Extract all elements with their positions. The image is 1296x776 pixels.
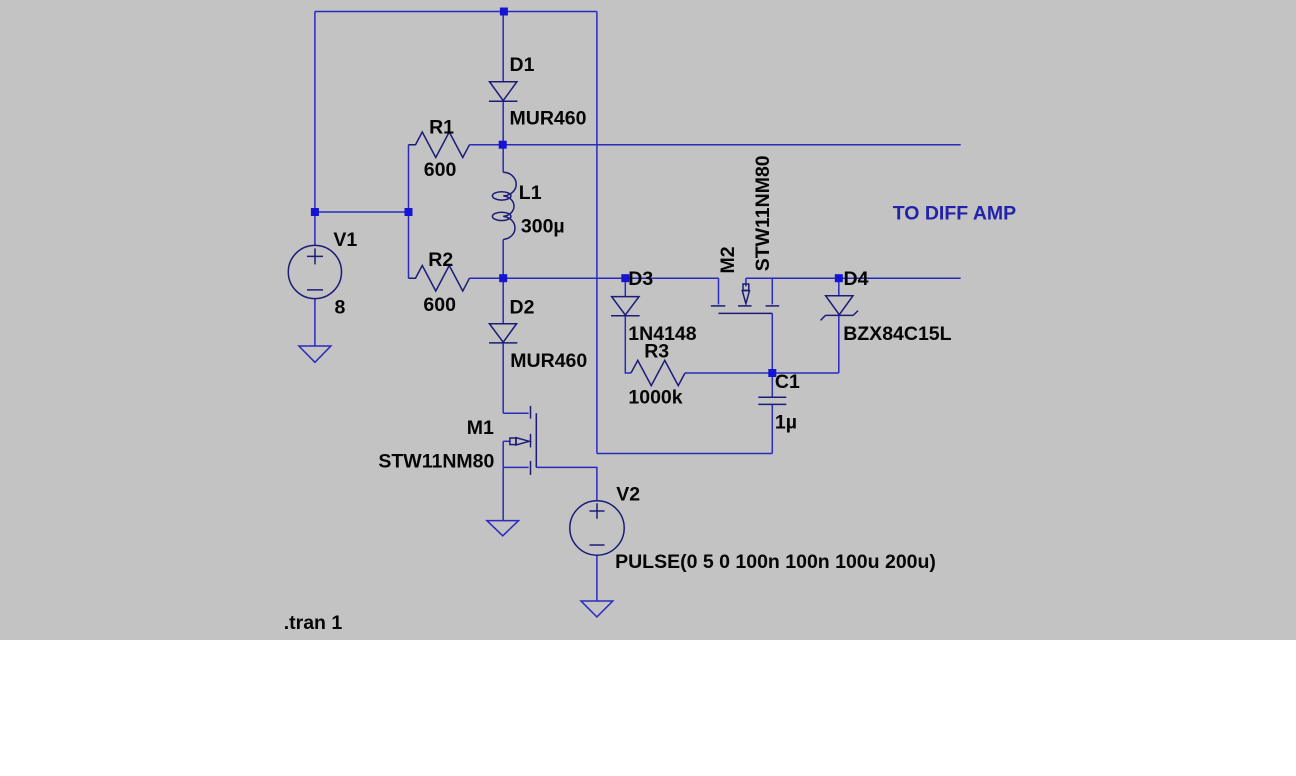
svg-text:MUR460: MUR460 — [510, 350, 587, 372]
svg-text:D1: D1 — [510, 54, 535, 76]
svg-text:1000k: 1000k — [628, 387, 682, 409]
svg-text:STW11NM80: STW11NM80 — [378, 451, 494, 473]
svg-text:R2: R2 — [428, 249, 453, 271]
svg-text:V2: V2 — [616, 484, 640, 506]
svg-text:C1: C1 — [775, 371, 800, 393]
svg-text:PULSE(0 5 0 100n 100n 100u 200: PULSE(0 5 0 100n 100n 100u 200u) — [615, 551, 936, 573]
svg-text:R3: R3 — [644, 340, 669, 362]
svg-text:300µ: 300µ — [521, 215, 565, 237]
svg-text:D2: D2 — [510, 296, 535, 318]
svg-text:D3: D3 — [628, 268, 653, 290]
svg-text:D4: D4 — [844, 268, 869, 290]
svg-text:600: 600 — [423, 294, 456, 316]
svg-text:1µ: 1µ — [775, 412, 797, 434]
svg-text:TO DIFF AMP: TO DIFF AMP — [893, 202, 1017, 224]
svg-text:BZX84C15L: BZX84C15L — [843, 323, 951, 345]
svg-text:M1: M1 — [467, 417, 494, 439]
svg-text:R1: R1 — [429, 117, 454, 139]
svg-text:V1: V1 — [333, 229, 357, 251]
svg-text:.tran 1: .tran 1 — [284, 612, 343, 634]
svg-text:600: 600 — [424, 159, 457, 181]
svg-text:8: 8 — [335, 297, 346, 319]
svg-text:L1: L1 — [519, 182, 542, 204]
svg-text:STW11NM80: STW11NM80 — [752, 155, 774, 271]
svg-text:M2: M2 — [717, 246, 739, 273]
svg-text:MUR460: MUR460 — [510, 107, 587, 129]
